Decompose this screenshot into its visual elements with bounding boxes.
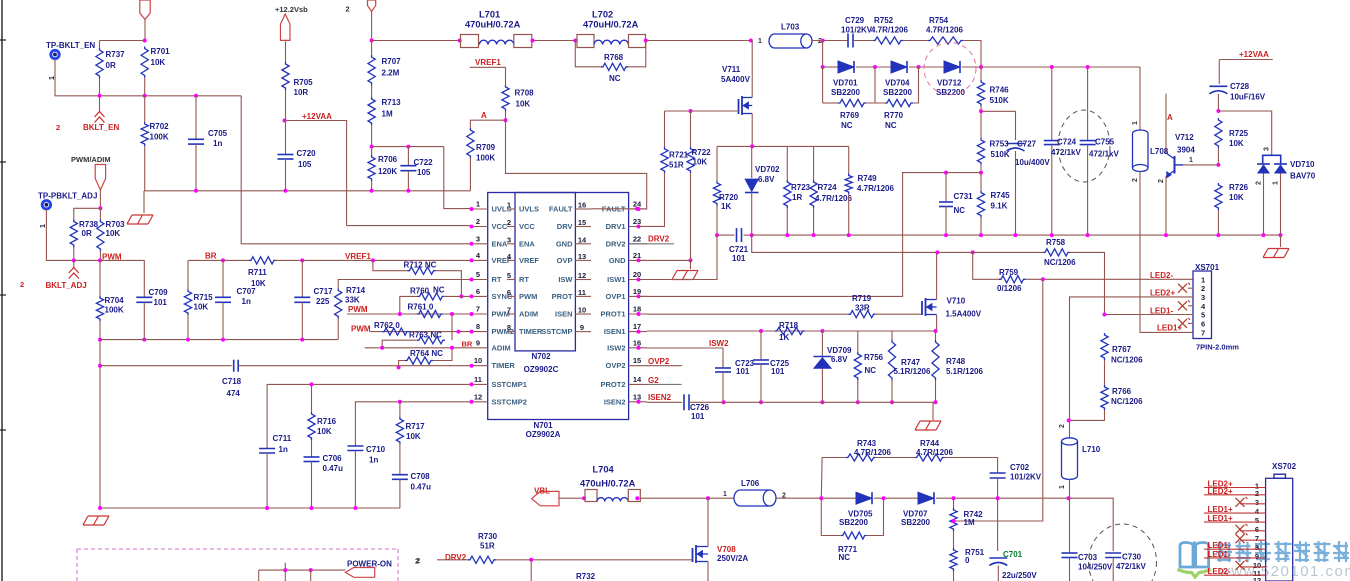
svg-text:4.7R/1206: 4.7R/1206 [871, 26, 908, 35]
svg-text:2: 2 [1158, 179, 1165, 183]
node C728 bottom [1216, 109, 1220, 113]
wire gate row [665, 110, 739, 112]
pin 9 ADIM stub [470, 347, 488, 349]
wire R719 to V710 gate [876, 313, 922, 315]
svg-text:20: 20 [633, 270, 641, 279]
resistor R751 (0) [950, 548, 957, 571]
svg-text:7PIN-2.0mm: 7PIN-2.0mm [1196, 343, 1239, 352]
node C706 bottom [310, 506, 314, 510]
capacitor C707 [222, 260, 224, 297]
resistor R704 [96, 296, 103, 321]
svg-text:PWM: PWM [351, 325, 371, 334]
svg-text:C722: C722 [414, 158, 434, 167]
svg-text:3904: 3904 [1177, 146, 1195, 155]
wire C702 node to C701 [997, 498, 999, 551]
svg-text:ISEN: ISEN [555, 310, 573, 319]
resistor R719 (33R) [848, 311, 875, 318]
node R706 bottom [370, 189, 374, 193]
svg-text:11: 11 [578, 288, 586, 297]
svg-text:4.7R/1206: 4.7R/1206 [854, 448, 891, 457]
svg-text:R756: R756 [864, 353, 884, 362]
svg-text:1: 1 [1132, 121, 1139, 125]
node rail C707 [221, 338, 225, 342]
svg-text:100K: 100K [150, 133, 169, 142]
svg-text:9: 9 [1255, 552, 1259, 561]
svg-text:470uH/0.72A: 470uH/0.72A [465, 20, 521, 30]
svg-text:TIMER: TIMER [492, 361, 516, 370]
svg-text:C721: C721 [729, 245, 749, 254]
svg-text:10uF/16V: 10uF/16V [1230, 93, 1266, 102]
resistor R764 (NC) [399, 361, 405, 368]
svg-text:R720: R720 [719, 193, 739, 202]
svg-text:R744: R744 [920, 439, 940, 448]
svg-text:ADIM: ADIM [492, 343, 511, 352]
wire R743-R744 [876, 457, 915, 459]
svg-text:470uH/0.72A: 470uH/0.72A [580, 479, 636, 489]
svg-text:VREF: VREF [519, 256, 539, 265]
wire PWM down to R704 [99, 260, 101, 296]
wire diode row [822, 41, 824, 68]
svg-text:1: 1 [1273, 181, 1280, 185]
svg-text:5: 5 [476, 270, 480, 279]
resistor R708 [505, 67, 507, 85]
wire R737 bottom [99, 78, 101, 96]
wire L704 to V708 node [640, 497, 708, 499]
svg-text:R725: R725 [1229, 129, 1249, 138]
svg-text:C717: C717 [314, 287, 334, 296]
power flag (top, feeds R701) [140, 0, 150, 20]
wire R766 bottom to LED2+ line [1069, 410, 1105, 420]
wire R738 bottom [73, 247, 75, 262]
diode VD712 (circled) [944, 61, 960, 73]
svg-text:101/2KV: 101/2KV [1010, 473, 1042, 482]
svg-text:R732: R732 [576, 572, 596, 581]
svg-text:R738: R738 [79, 220, 99, 229]
wire V712 emitter [1165, 177, 1167, 236]
pin 3 ENA stub [470, 243, 488, 245]
pin 11 SSTCMP1 stub [470, 383, 488, 385]
capacitor C726 (101) [683, 394, 685, 410]
svg-text:SB2200: SB2200 [839, 518, 868, 527]
resistor R746 [980, 67, 982, 80]
svg-text:N701: N701 [533, 421, 553, 430]
svg-text:VD701: VD701 [833, 79, 858, 88]
svg-text:OVP1: OVP1 [605, 292, 625, 301]
svg-text:TP-PBKLT_ADJ: TP-PBKLT_ADJ [38, 192, 97, 201]
XS701 pin 4 X mark [1188, 305, 1193, 307]
svg-text:101: 101 [154, 298, 168, 307]
svg-text:10K: 10K [1229, 139, 1244, 148]
svg-text:R747: R747 [901, 358, 921, 367]
node BKLT_EN junction [98, 94, 102, 98]
node C720 bottom [284, 189, 288, 193]
svg-text:14: 14 [578, 235, 587, 244]
svg-text:C711: C711 [273, 434, 292, 443]
svg-text:23: 23 [633, 217, 641, 226]
svg-text:R722: R722 [692, 148, 712, 157]
wire C718 to pin10 [238, 365, 470, 367]
svg-text:ISW2: ISW2 [709, 339, 729, 348]
svg-text:2.2M: 2.2M [382, 69, 400, 78]
wire R720 to ISW1 [716, 206, 718, 236]
XS701 pin 6 X mark [1188, 322, 1193, 324]
off-page connector BKLT_ADJ [73, 260, 75, 267]
wire R709 bottom to rail [469, 158, 471, 191]
svg-text:VCC: VCC [492, 222, 508, 231]
svg-text:N702: N702 [531, 352, 551, 361]
svg-text:TIMER: TIMER [519, 327, 543, 336]
power flag (above R707) [368, 0, 376, 12]
pin 21 GND stub [629, 259, 647, 261]
wire VD705-VD707 [874, 497, 918, 499]
svg-text:R721: R721 [669, 151, 689, 160]
pin 24 FAULT stub [629, 208, 647, 210]
svg-text:R761 0: R761 0 [408, 303, 434, 312]
svg-text:12: 12 [1253, 576, 1261, 581]
svg-text:LED1-: LED1- [1208, 541, 1231, 550]
svg-text:10K: 10K [317, 427, 332, 436]
svg-text:R758: R758 [1046, 238, 1066, 247]
svg-text:1: 1 [758, 38, 762, 45]
capacitor C724 [1051, 67, 1053, 141]
wire VD710 anodes to gnd row [1263, 173, 1265, 235]
svg-text:ENA: ENA [519, 239, 535, 248]
wire feedback sense drop [954, 279, 1043, 521]
pin 10 TIMER stub [470, 365, 488, 367]
wire R707-R713 [371, 85, 373, 97]
svg-text:2: 2 [507, 218, 511, 227]
pin 15 OVP2 stub [629, 365, 647, 367]
capacitor C729 [847, 34, 849, 48]
svg-text:SB2200: SB2200 [831, 88, 860, 97]
svg-text:22: 22 [633, 234, 641, 243]
svg-text:100K: 100K [105, 306, 124, 315]
svg-text:R726: R726 [1229, 183, 1249, 192]
wire ISW1 to pin20 [639, 235, 718, 279]
svg-text:15: 15 [578, 218, 586, 227]
resistor R724 [813, 146, 815, 180]
pin 14 PROT2 stub [629, 383, 647, 385]
wire OVP1 tap node [980, 165, 982, 191]
svg-text:510K: 510K [990, 96, 1009, 105]
svg-text:OVP2: OVP2 [605, 361, 625, 370]
ground symbol (pin21) [690, 260, 692, 269]
diode VD701 [838, 61, 854, 73]
svg-text:GND: GND [556, 239, 573, 248]
ground symbol (VD710) [1280, 235, 1282, 247]
svg-text:33K: 33K [345, 296, 360, 305]
svg-text:C701: C701 [1003, 550, 1023, 559]
wire ADIM row pin9 [365, 347, 470, 349]
capacitor C710 [347, 445, 363, 447]
svg-text:L706: L706 [741, 479, 760, 488]
wire R752-R754 [903, 40, 928, 42]
node C707 top [221, 258, 225, 262]
svg-text:R724: R724 [818, 183, 838, 192]
svg-text:6: 6 [507, 288, 511, 297]
wire UVLS feed to pin1 [444, 147, 470, 209]
svg-text:R764 NC: R764 NC [410, 349, 443, 358]
svg-text:R706: R706 [378, 155, 398, 164]
svg-text:16: 16 [633, 338, 641, 347]
svg-text:R717: R717 [406, 422, 426, 431]
wire TP to EN row [55, 59, 100, 96]
svg-text:SB2200: SB2200 [901, 518, 930, 527]
pin 4 VREF stub [470, 259, 488, 261]
svg-text:C707: C707 [237, 287, 257, 296]
svg-text:PROT: PROT [552, 292, 573, 301]
svg-text:1: 1 [507, 201, 511, 210]
resistor R762 (0) [382, 328, 409, 335]
wire SSTCMP2 row pin12 [355, 402, 469, 446]
resistor R714 [337, 318, 339, 339]
wire BR row [188, 259, 223, 261]
op-amp controller N701 OZ9902A outer box [488, 193, 629, 420]
resistor R766 (NC/1206) [1101, 385, 1108, 410]
pin 7 PWM stub [470, 313, 488, 315]
svg-text:3: 3 [1255, 498, 1259, 507]
svg-text:VREF1: VREF1 [345, 252, 371, 261]
pin 1 UVLS stub [470, 208, 488, 210]
capacitor C702 (101/2KV) [990, 472, 1006, 474]
svg-text:51R: 51R [669, 161, 684, 170]
wire PWM row7 [347, 313, 470, 315]
wire V710 drain to sense node [936, 252, 938, 299]
wire source sense row y=146.4 [717, 145, 849, 147]
svg-text:LED2+: LED2+ [1150, 289, 1175, 298]
watermark chinese text 家电维修资料网 [1216, 541, 1232, 562]
inner pin 7 ADIM stub [507, 313, 515, 315]
resistor R744 [915, 454, 945, 461]
svg-text:SSTCMP1: SSTCMP1 [492, 380, 527, 389]
resistor R703 [99, 208, 101, 219]
svg-text:R705: R705 [294, 78, 314, 87]
capacitor C730 (472/1kV) [1105, 552, 1121, 554]
svg-text:SSTCMP: SSTCMP [541, 327, 572, 336]
svg-text:5.1R/1206: 5.1R/1206 [946, 367, 983, 376]
svg-text:100K: 100K [476, 154, 495, 163]
diode VD705 (SB2200) [856, 492, 872, 504]
pin 12 SSTCMP2 stub [470, 401, 488, 403]
resistor R720 [716, 146, 718, 181]
inner pin 14 GND stub [575, 243, 591, 245]
svg-text:R749: R749 [858, 174, 878, 183]
wire R760 to pin6 [444, 295, 470, 297]
watermark book icon [1180, 542, 1209, 568]
svg-text:DRV1: DRV1 [606, 222, 626, 231]
svg-text:101: 101 [691, 412, 705, 421]
svg-text:C703: C703 [1078, 553, 1098, 562]
svg-text:1K: 1K [779, 333, 789, 342]
inner pin 1 UVLS stub [507, 208, 515, 210]
inner pin 12 ISW stub [575, 279, 591, 281]
capacitor C722 [407, 147, 409, 166]
svg-text:2: 2 [1255, 489, 1259, 498]
node UVLS divider junction [370, 145, 374, 149]
svg-text:LED1+: LED1+ [1157, 324, 1182, 333]
svg-text:0: 0 [965, 556, 970, 565]
wire R746-R753 node [980, 106, 982, 138]
wire V711 drain [751, 41, 753, 98]
wire C727 tap [981, 111, 1016, 140]
svg-text:R701: R701 [151, 47, 171, 56]
resistor R726 [1215, 183, 1222, 210]
svg-text:51R: 51R [480, 542, 495, 551]
svg-text:BR: BR [462, 340, 473, 349]
svg-text:C730: C730 [1122, 553, 1142, 562]
ground symbol (left) [132, 214, 153, 216]
svg-text:R770: R770 [884, 111, 904, 120]
svg-text:9: 9 [580, 323, 584, 332]
wire R744 down to C702 node [945, 458, 998, 474]
wire V711 source [751, 114, 753, 147]
svg-text:104/250V: 104/250V [1078, 563, 1113, 572]
node rail gnd [98, 506, 102, 510]
resistor R713 [368, 97, 375, 125]
wire ISW2 row to C723 [647, 348, 723, 368]
wire R702 bottom [144, 146, 146, 191]
wire divider row [372, 146, 444, 148]
svg-text:13: 13 [633, 392, 641, 401]
wire R759 to XS701 pin1 LED2- [1026, 278, 1194, 280]
svg-text:1n: 1n [279, 445, 288, 454]
pin connection dots left [470, 207, 474, 211]
svg-text:22u/250V: 22u/250V [1002, 571, 1037, 580]
node R702 top junction [143, 94, 147, 98]
wire VD702 node down to sense wire [752, 235, 938, 252]
svg-text:2: 2 [346, 5, 350, 14]
svg-text:OVP: OVP [557, 256, 573, 265]
svg-text:C709: C709 [149, 288, 169, 297]
svg-text:G2: G2 [648, 376, 659, 385]
svg-text:11: 11 [474, 375, 482, 384]
svg-text:3: 3 [1201, 293, 1205, 302]
svg-text:RT: RT [519, 275, 529, 284]
resistor R730 (51R) [468, 556, 496, 563]
svg-text:R712 NC: R712 NC [404, 261, 437, 270]
svg-text:225: 225 [316, 297, 330, 306]
inner pin 3 ENA stub [507, 243, 515, 245]
node rail left corner [98, 338, 102, 342]
svg-text:13: 13 [578, 252, 586, 261]
svg-text:12: 12 [578, 271, 586, 280]
resistor R769 (NC) [822, 67, 824, 103]
svg-text:7: 7 [476, 305, 480, 314]
svg-text:L710: L710 [1082, 445, 1101, 454]
svg-text:1n: 1n [242, 297, 251, 306]
svg-text:3: 3 [476, 234, 480, 243]
wire L710 to row [1069, 479, 1071, 498]
svg-text:14: 14 [633, 375, 642, 384]
wire PWM row8 [370, 331, 470, 333]
wire ground rail y=191 [144, 190, 470, 192]
wire gnd rail y=340 [100, 339, 338, 341]
diode VD707 (SB2200) [918, 492, 934, 504]
wire V708 source [707, 562, 709, 581]
wire R714 top to RT pin5 [338, 280, 470, 289]
svg-text:PROT2: PROT2 [600, 380, 625, 389]
wire R705 bottom [285, 90, 287, 121]
node C705 bottom [194, 189, 198, 193]
svg-text:10: 10 [474, 356, 482, 365]
wire L708 to XS701 pin7 [1140, 172, 1193, 333]
node R722 top [689, 109, 693, 113]
node row8 junction [456, 330, 460, 334]
ground symbol (row402) [932, 402, 934, 420]
svg-text:472/1kV: 472/1kV [1116, 562, 1146, 571]
svg-text:VREF1: VREF1 [475, 58, 501, 67]
inner pin 9 SSTCMP stub [575, 331, 591, 333]
svg-text:10K: 10K [106, 229, 121, 238]
svg-text:R766: R766 [1112, 387, 1132, 396]
svg-text:VD702: VD702 [755, 165, 780, 174]
wire R767-R766 [1104, 360, 1106, 385]
svg-text:4.7R/1206: 4.7R/1206 [916, 448, 953, 457]
capacitor C711 [259, 448, 275, 450]
resistor R722 [690, 111, 692, 147]
resistor R717 [399, 402, 401, 417]
node VREF1 R712 tap [371, 258, 375, 262]
wire L703 out [812, 40, 848, 42]
svg-text:NC: NC [839, 553, 851, 562]
svg-text:R737: R737 [106, 50, 126, 59]
svg-text:C728: C728 [1230, 82, 1250, 91]
wire VCC pin2 [347, 225, 470, 227]
svg-text:2: 2 [1059, 424, 1066, 428]
inner pin 4 VREF stub [507, 259, 515, 261]
resistor R763 (NC) [451, 314, 453, 340]
svg-text:NC: NC [841, 121, 853, 130]
resistor R702 [141, 122, 148, 146]
ground symbol (bottom left) [88, 515, 109, 517]
svg-text:GND: GND [609, 256, 626, 265]
svg-text:C731: C731 [954, 192, 974, 201]
svg-text:C710: C710 [366, 445, 386, 454]
svg-text:V710: V710 [947, 297, 966, 306]
svg-text:LED2-: LED2- [1208, 567, 1231, 576]
wire flag to R705 [285, 41, 287, 62]
svg-text:R718: R718 [779, 321, 799, 330]
inductor L710 [1069, 437, 1071, 439]
svg-text:8: 8 [1255, 543, 1259, 552]
node ADJ junction [98, 206, 102, 210]
svg-text:R752: R752 [874, 16, 894, 25]
svg-text:1M: 1M [382, 110, 393, 119]
wire R725 row to VD710 [1218, 111, 1271, 155]
svg-text:DRV2: DRV2 [606, 239, 626, 248]
node C722 bottom [406, 189, 410, 193]
svg-text:10K: 10K [251, 279, 266, 288]
svg-text:ISW2: ISW2 [607, 343, 625, 352]
capacitor C717 [301, 260, 303, 297]
svg-text:+12VAA: +12VAA [302, 112, 332, 121]
wire L706 out [776, 497, 856, 499]
svg-text:R702: R702 [150, 122, 170, 131]
zener diode VD709 (6.8V) [821, 331, 823, 356]
svg-text:472/1kV: 472/1kV [1051, 148, 1081, 157]
node C722 top junction [406, 145, 410, 149]
svg-text:R759: R759 [999, 268, 1019, 277]
resistor R767 (NC/1206) [1101, 333, 1108, 360]
resistor R756 (NC) [857, 331, 859, 352]
inner pin 6 PWM stub [507, 295, 515, 297]
capacitor C708 [399, 444, 401, 475]
diode VD704 [891, 61, 907, 73]
wire R754 to output node [963, 41, 981, 68]
wire R712 to pin6 node [436, 271, 462, 297]
svg-text:PWM/ADIM: PWM/ADIM [71, 155, 111, 164]
wire A to FAULT [506, 120, 647, 209]
